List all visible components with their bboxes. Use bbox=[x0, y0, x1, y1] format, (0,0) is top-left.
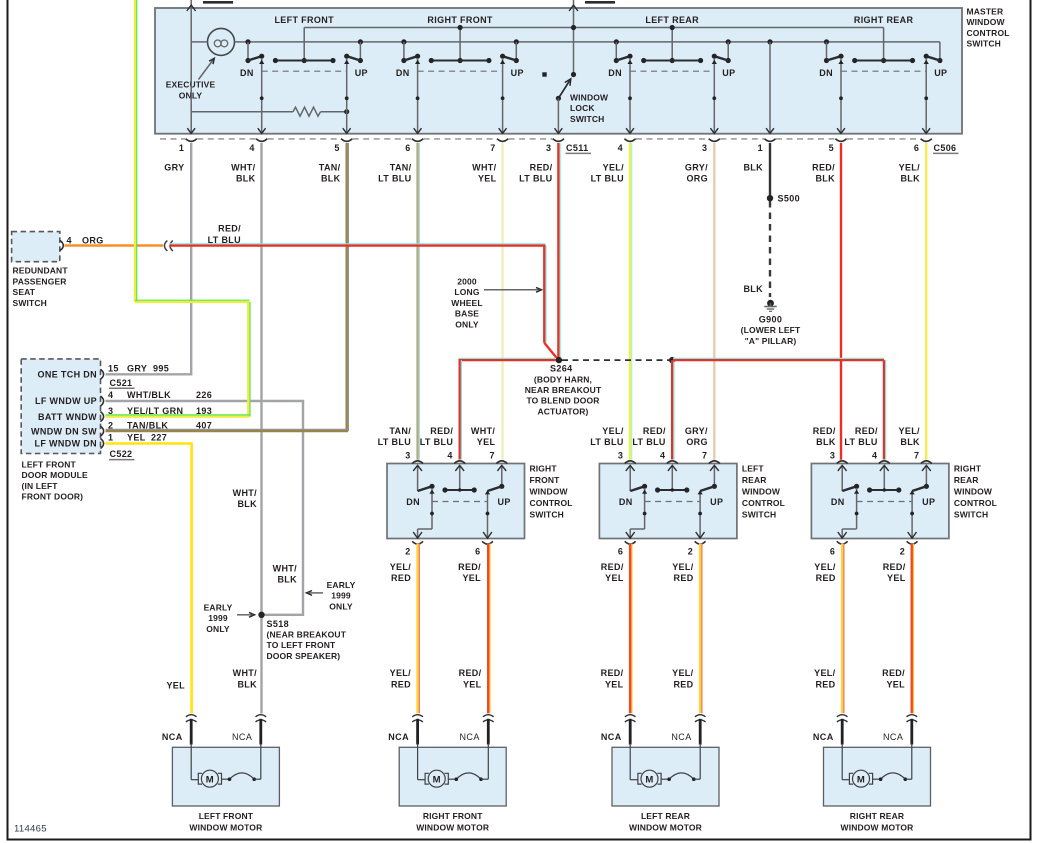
svg-text:RIGHT: RIGHT bbox=[954, 463, 982, 473]
wire YEL/RED left rear switch pin 2 to motor bbox=[699, 544, 702, 714]
svg-text:"A" PILLAR): "A" PILLAR) bbox=[745, 336, 797, 346]
svg-text:WINDOW: WINDOW bbox=[742, 486, 781, 496]
svg-text:RIGHT REAR: RIGHT REAR bbox=[850, 811, 904, 821]
svg-text:WINDOW: WINDOW bbox=[530, 486, 569, 496]
svg-text:BATT WNDW: BATT WNDW bbox=[38, 412, 97, 422]
right rear window control switch box bbox=[811, 464, 949, 539]
svg-text:WINDOW MOTOR: WINDOW MOTOR bbox=[416, 822, 489, 832]
svg-text:LT BLU: LT BLU bbox=[378, 437, 411, 447]
svg-text:RED: RED bbox=[673, 679, 693, 689]
master cell right front DN arm wire to pin bbox=[417, 58, 419, 133]
svg-text:BLK: BLK bbox=[815, 174, 835, 184]
svg-text:WINDOW: WINDOW bbox=[954, 486, 993, 496]
svg-text:RED/: RED/ bbox=[430, 426, 453, 436]
svg-text:RED/: RED/ bbox=[530, 162, 553, 172]
svg-text:SWITCH: SWITCH bbox=[967, 39, 1001, 49]
svg-text:7: 7 bbox=[490, 143, 495, 153]
wire YEL/LT GRN module pin 3 from top bbox=[134, 0, 136, 302]
svg-text:NCA: NCA bbox=[162, 732, 183, 742]
redundant passenger seat switch box bbox=[12, 232, 60, 262]
right front window control switch box bbox=[387, 464, 525, 539]
svg-text:BLK: BLK bbox=[236, 174, 256, 184]
svg-text:NCA: NCA bbox=[883, 732, 903, 742]
svg-text:RED/: RED/ bbox=[459, 668, 482, 678]
svg-text:6: 6 bbox=[475, 546, 480, 556]
wire YEL/RED right front switch pin 2 to motor bbox=[416, 544, 419, 714]
svg-text:SWITCH: SWITCH bbox=[530, 509, 564, 519]
right rear window control switch UP blade bbox=[912, 486, 926, 491]
svg-text:LEFT FRONT: LEFT FRONT bbox=[22, 459, 77, 469]
svg-text:BLK: BLK bbox=[816, 437, 836, 447]
inline connector on ORG/RED wire bbox=[164, 241, 167, 251]
svg-text:YEL/: YEL/ bbox=[898, 426, 920, 436]
right front|window motor brush arc bbox=[448, 778, 456, 780]
master cell left rear DN blade bbox=[616, 56, 630, 60]
wire TAN/LT BLU from master pin 6 bbox=[416, 143, 418, 460]
svg-text:DOOR MODULE: DOOR MODULE bbox=[22, 470, 89, 480]
left rear|window motor motor M1 symbol bbox=[629, 744, 631, 780]
svg-text:7: 7 bbox=[489, 450, 494, 460]
master cell left front UP arm wire to pin bbox=[346, 58, 348, 133]
svg-text:WINDOW MOTOR: WINDOW MOTOR bbox=[841, 822, 914, 832]
left rear window control switch DN blade bbox=[630, 486, 644, 491]
svg-text:LEFT REAR: LEFT REAR bbox=[641, 811, 690, 821]
splice S264 bbox=[556, 357, 562, 363]
illumination lamp (executive only) bbox=[208, 28, 235, 55]
wire WHT/BLK module pin 4 bbox=[106, 400, 305, 402]
left front|window motor motor M1 symbol bbox=[190, 744, 192, 780]
master cell left rear UP bus tap bbox=[726, 39, 731, 44]
right front|window motor lead wires bbox=[416, 719, 419, 745]
svg-text:YEL/: YEL/ bbox=[390, 562, 412, 572]
svg-text:FRONT: FRONT bbox=[530, 475, 561, 485]
right front window control switch pin 7 line bbox=[501, 465, 503, 486]
right front window control switch contact bar bbox=[445, 489, 474, 491]
left rear|window motor brush arc bbox=[661, 778, 669, 780]
master cell left rear UP blade bbox=[714, 56, 728, 60]
bus line B (main supply inside master) bbox=[191, 41, 207, 43]
svg-text:226: 226 bbox=[196, 390, 212, 400]
left rear window control switch UP arm bbox=[699, 491, 701, 538]
master connector bump pin 7 at x=502.6 bbox=[497, 139, 508, 142]
svg-text:114465: 114465 bbox=[14, 824, 47, 835]
svg-text:1: 1 bbox=[108, 433, 113, 443]
svg-text:UP: UP bbox=[511, 68, 524, 78]
svg-text:4: 4 bbox=[660, 450, 665, 460]
svg-text:C521: C521 bbox=[110, 378, 133, 388]
module pin 15 ONE TCH DN bbox=[101, 369, 104, 379]
svg-text:NEAR BREAKOUT: NEAR BREAKOUT bbox=[525, 385, 602, 395]
svg-text:LT BLU: LT BLU bbox=[591, 174, 624, 184]
wire RED/LT BLU horizontal from connector bbox=[170, 244, 546, 246]
master cell left front DN arm wire to pin bbox=[261, 58, 263, 133]
svg-text:TAN/: TAN/ bbox=[389, 426, 411, 436]
master cell right front contact bar bbox=[431, 60, 489, 62]
right rear|window motor motor M1 symbol bbox=[841, 744, 843, 780]
master cell right front DN blade bbox=[404, 56, 418, 60]
arrow 2000-LWB to wire bbox=[484, 289, 539, 291]
svg-text:DN: DN bbox=[396, 68, 410, 78]
wire WHT/BLK from master pin 4 bbox=[260, 143, 262, 714]
svg-text:YEL/: YEL/ bbox=[603, 162, 625, 172]
svg-text:ACTUATOR): ACTUATOR) bbox=[537, 406, 588, 416]
svg-text:3: 3 bbox=[546, 143, 551, 153]
bus line A (window feed inside master) bbox=[304, 27, 883, 29]
right rear window control switch pin bumps top bbox=[837, 461, 848, 464]
svg-text:RED/: RED/ bbox=[812, 162, 835, 172]
svg-text:YEL: YEL bbox=[886, 679, 905, 689]
svg-text:LT BLU: LT BLU bbox=[844, 437, 877, 447]
master cell right rear contact bar bbox=[855, 60, 913, 62]
left front|window motor inline connector right bbox=[256, 715, 267, 717]
master cell left rear mechanical link bbox=[630, 70, 714, 72]
svg-text:CONTROL: CONTROL bbox=[742, 498, 785, 508]
svg-text:RIGHT REAR: RIGHT REAR bbox=[854, 15, 914, 25]
right front|window motor inline connector right bbox=[483, 715, 494, 717]
left rear|window motor lead wires bbox=[629, 719, 632, 745]
svg-text:NCA: NCA bbox=[232, 732, 252, 742]
master connector bump pin 1 at x=770.0 bbox=[764, 139, 775, 142]
wire RED/YEL right rear switch pin 2 to motor bbox=[910, 544, 913, 714]
svg-text:LT BLU: LT BLU bbox=[378, 174, 411, 184]
svg-text:2: 2 bbox=[405, 546, 410, 556]
right rear|window motor inline connector left bbox=[837, 715, 848, 717]
svg-text:CONTROL: CONTROL bbox=[967, 28, 1010, 38]
svg-text:YEL/: YEL/ bbox=[602, 426, 624, 436]
svg-text:RED: RED bbox=[816, 573, 836, 583]
svg-text:LT BLU: LT BLU bbox=[632, 437, 665, 447]
lamp return line with resistor bbox=[190, 42, 192, 133]
svg-text:RIGHT FRONT: RIGHT FRONT bbox=[427, 15, 492, 25]
right rear window control switch pin bumps bottom bbox=[837, 541, 848, 544]
svg-text:CONTROL: CONTROL bbox=[530, 498, 573, 508]
wire feed to window lock switch (right pigtail) bbox=[573, 0, 575, 75]
right rear|window motor box bbox=[824, 747, 931, 806]
right rear window control switch pin 4 feed line bbox=[883, 465, 885, 490]
svg-text:WHT/: WHT/ bbox=[233, 668, 258, 678]
svg-text:LEFT: LEFT bbox=[742, 463, 765, 473]
wire BLK dashed to ground bbox=[769, 201, 771, 297]
wire YEL/LT BLU from master pin 4 C506 bbox=[629, 143, 631, 460]
window lock switch wire to pin 3 bbox=[557, 98, 559, 133]
splice S518 bbox=[258, 612, 264, 618]
svg-text:CONTROL: CONTROL bbox=[954, 498, 997, 508]
module pin 4 LF WNDW UP bbox=[101, 396, 104, 406]
window lock switch blade bbox=[571, 72, 576, 77]
svg-text:RED: RED bbox=[391, 573, 411, 583]
svg-text:YEL: YEL bbox=[887, 573, 906, 583]
svg-text:4: 4 bbox=[67, 236, 72, 246]
svg-text:UP: UP bbox=[934, 68, 947, 78]
right front window control switch pin 4 feed line bbox=[459, 465, 461, 490]
wire BLK from master pin 1 C506 bbox=[769, 143, 771, 197]
module pin 1 LF WNDW DN bbox=[101, 439, 104, 449]
right rear window control switch mechanical link bbox=[857, 501, 913, 503]
wire WHT/BLK branch into S518 bbox=[262, 614, 304, 616]
module pin 3 BATT WNDW bbox=[101, 412, 104, 422]
svg-text:RED/: RED/ bbox=[218, 224, 241, 234]
svg-text:EARLY: EARLY bbox=[327, 580, 356, 590]
svg-text:6: 6 bbox=[914, 143, 919, 153]
svg-text:BLK: BLK bbox=[743, 284, 763, 294]
left front|window motor lead wires bbox=[190, 719, 193, 745]
svg-text:WHT/: WHT/ bbox=[233, 488, 258, 498]
master cell left front UP bus tap bbox=[358, 39, 363, 44]
master cell right front UP bus tap bbox=[514, 39, 519, 44]
svg-text:4: 4 bbox=[249, 143, 254, 153]
master cell left rear center feed to line A bbox=[671, 28, 673, 61]
svg-text:DN: DN bbox=[608, 68, 622, 78]
right front window control switch UP arm bbox=[487, 491, 489, 538]
svg-text:6: 6 bbox=[830, 546, 835, 556]
svg-text:(LOWER LEFT: (LOWER LEFT bbox=[741, 325, 801, 335]
right front|window motor box bbox=[399, 747, 506, 806]
svg-text:UP: UP bbox=[355, 68, 368, 78]
right front window control switch DN blade bbox=[418, 486, 432, 491]
wire RED/YEL left rear switch pin 6 to motor bbox=[629, 544, 632, 714]
svg-text:995: 995 bbox=[153, 364, 169, 374]
master cell left front DN bus tap bbox=[245, 39, 250, 44]
svg-text:DN: DN bbox=[819, 68, 833, 78]
svg-text:ORG: ORG bbox=[686, 174, 708, 184]
svg-text:GRY/: GRY/ bbox=[685, 162, 708, 172]
master cell right rear DN blade bbox=[827, 56, 842, 60]
right front|window motor inline connector left bbox=[412, 715, 423, 717]
master cell right rear mechanical link bbox=[841, 70, 926, 72]
wire YEL/RED right rear switch pin 6 to motor bbox=[841, 544, 844, 714]
right front window control switch UP blade bbox=[488, 486, 502, 491]
master cell right rear DN bus tap bbox=[824, 39, 829, 44]
svg-text:YEL: YEL bbox=[605, 573, 624, 583]
wire TAN/BLK from master pin 5 bbox=[346, 143, 348, 431]
svg-text:NCA: NCA bbox=[388, 732, 409, 742]
svg-text:NCA: NCA bbox=[459, 732, 479, 742]
svg-text:4: 4 bbox=[447, 450, 452, 460]
svg-text:LEFT FRONT: LEFT FRONT bbox=[199, 811, 254, 821]
svg-text:UP: UP bbox=[922, 497, 935, 507]
left rear window control switch UP blade bbox=[700, 486, 714, 491]
master connector bump pin 1 at x=191.2 bbox=[186, 139, 197, 142]
master cell right front center feed to line A bbox=[459, 28, 461, 61]
svg-text:LF WNDW UP: LF WNDW UP bbox=[35, 396, 97, 406]
svg-text:M: M bbox=[433, 774, 441, 785]
right front window control switch pin 3 line bbox=[417, 465, 419, 491]
left front|window motor box bbox=[172, 747, 279, 806]
left rear|window motor box bbox=[612, 747, 719, 806]
svg-text:TAN/: TAN/ bbox=[390, 162, 412, 172]
svg-text:SEAT: SEAT bbox=[13, 287, 36, 297]
master cell right front DN bus tap bbox=[401, 39, 406, 44]
svg-text:2: 2 bbox=[900, 546, 905, 556]
svg-text:M: M bbox=[206, 774, 214, 785]
svg-text:REDUNDANT: REDUNDANT bbox=[13, 266, 69, 276]
master cell left rear DN arm wire to pin bbox=[629, 58, 631, 133]
svg-text:NCA: NCA bbox=[671, 732, 691, 742]
window lock switch contact point bbox=[542, 72, 546, 76]
master window control switch U-master box bbox=[155, 8, 962, 134]
svg-text:WINDOW: WINDOW bbox=[570, 93, 609, 103]
wire TAN/BLK module pin 2 to master pin 5 bbox=[106, 430, 348, 432]
svg-text:4: 4 bbox=[108, 390, 113, 400]
svg-text:ONE TCH DN: ONE TCH DN bbox=[38, 370, 98, 380]
svg-text:WINDOW MOTOR: WINDOW MOTOR bbox=[629, 822, 702, 832]
master connector bump pin 6 at x=417.6 bbox=[412, 139, 423, 142]
svg-text:WHEEL: WHEEL bbox=[451, 298, 482, 308]
svg-text:UP: UP bbox=[498, 497, 511, 507]
svg-text:5: 5 bbox=[829, 143, 834, 153]
svg-text:1999: 1999 bbox=[331, 591, 351, 601]
svg-text:SWITCH: SWITCH bbox=[742, 509, 776, 519]
svg-text:15: 15 bbox=[108, 364, 119, 374]
svg-text:LEFT FRONT: LEFT FRONT bbox=[274, 15, 334, 25]
resistor R-lamp bbox=[293, 107, 321, 116]
svg-text:PASSENGER: PASSENGER bbox=[13, 276, 67, 286]
svg-text:LOCK: LOCK bbox=[570, 103, 595, 113]
arrow early-1999 to S518 bbox=[237, 614, 252, 616]
splice node right of S264 bbox=[669, 357, 675, 363]
svg-text:3: 3 bbox=[702, 143, 707, 153]
svg-text:DN: DN bbox=[240, 68, 254, 78]
wire RED/LT BLU from master pin 3 bbox=[557, 143, 559, 358]
svg-text:BLK: BLK bbox=[277, 575, 297, 585]
svg-text:6: 6 bbox=[618, 546, 623, 556]
svg-text:YEL/: YEL/ bbox=[814, 668, 836, 678]
svg-text:LONG: LONG bbox=[454, 287, 479, 297]
svg-text:WHT/BLK: WHT/BLK bbox=[127, 390, 171, 400]
svg-text:RED: RED bbox=[815, 679, 835, 689]
svg-text:LF WNDW DN: LF WNDW DN bbox=[35, 439, 97, 449]
svg-text:YEL: YEL bbox=[462, 573, 481, 583]
svg-text:RIGHT: RIGHT bbox=[530, 463, 558, 473]
master cell right rear UP blade bbox=[926, 56, 940, 60]
svg-text:BLK: BLK bbox=[900, 174, 920, 184]
svg-text:RED/: RED/ bbox=[601, 562, 624, 572]
arrow early-1999 to branch wire bbox=[309, 592, 323, 594]
wire RED/LT BLU to right rear switch pin 4 bbox=[673, 359, 884, 361]
svg-text:TAN/: TAN/ bbox=[319, 162, 341, 172]
master cell right rear UP arm wire to pin bbox=[925, 58, 927, 133]
svg-text:BLK: BLK bbox=[237, 679, 257, 689]
module pin 2 WNDW DN SW bbox=[101, 426, 104, 436]
svg-text:WNDW DN SW: WNDW DN SW bbox=[31, 426, 97, 436]
right front window control switch DN arm bbox=[431, 488, 433, 529]
passenger seat switch pin 4 bump bbox=[60, 241, 63, 251]
master cell left rear UP arm wire to pin bbox=[713, 58, 715, 133]
right rear window control switch pin 3 line bbox=[841, 465, 843, 491]
svg-text:BLK: BLK bbox=[900, 437, 920, 447]
wire GRY/ORG from master pin 3 C506 bbox=[713, 143, 715, 460]
svg-text:LT BLU: LT BLU bbox=[420, 437, 453, 447]
master cell right front UP arm wire to pin bbox=[502, 58, 504, 133]
svg-text:2000: 2000 bbox=[457, 277, 477, 287]
svg-text:1999: 1999 bbox=[208, 613, 228, 623]
wire YEL module pin 1 bbox=[106, 442, 193, 445]
svg-text:RED: RED bbox=[391, 679, 411, 689]
wire YEL/BLK from master pin 6 C506 bbox=[925, 143, 927, 460]
left rear window control switch box bbox=[599, 464, 737, 539]
svg-text:2: 2 bbox=[688, 546, 693, 556]
right rear window control switch pin 7 line bbox=[925, 465, 927, 486]
svg-text:1: 1 bbox=[758, 143, 763, 153]
master connector bump pin 6 at x=926.2 bbox=[921, 139, 932, 142]
master connector bump pin 3 at x=558.4 bbox=[553, 139, 564, 142]
left rear window control switch pin bumps top bbox=[625, 461, 636, 464]
svg-text:UP: UP bbox=[722, 68, 735, 78]
svg-text:WINDOW MOTOR: WINDOW MOTOR bbox=[189, 822, 262, 832]
svg-text:M: M bbox=[645, 774, 653, 785]
svg-text:LEFT REAR: LEFT REAR bbox=[645, 15, 699, 25]
master cell left front center feed to line A bbox=[303, 28, 305, 61]
left rear window control switch pin 3 line bbox=[629, 465, 631, 491]
svg-text:DN: DN bbox=[619, 497, 633, 507]
svg-text:BASE: BASE bbox=[455, 309, 479, 319]
svg-text:FRONT DOOR): FRONT DOOR) bbox=[22, 492, 84, 502]
wire RED/LT BLU S264 to right front switch pin 4 bbox=[459, 359, 557, 361]
svg-text:RED/: RED/ bbox=[601, 668, 624, 678]
wire GRY module pin 15 to master bbox=[106, 373, 193, 375]
svg-text:ONLY: ONLY bbox=[455, 319, 479, 329]
svg-text:DOOR SPEAKER): DOOR SPEAKER) bbox=[267, 651, 341, 661]
left rear window control switch DN arm bbox=[644, 488, 646, 529]
svg-text:SWITCH: SWITCH bbox=[570, 114, 604, 124]
svg-text:RED/: RED/ bbox=[643, 426, 666, 436]
svg-text:LT BLU: LT BLU bbox=[590, 437, 623, 447]
master connector bump pin 4 at x=630.0 bbox=[624, 139, 635, 142]
svg-text:WHT/: WHT/ bbox=[471, 426, 496, 436]
wire GRY from master pin 1 bbox=[190, 143, 192, 374]
svg-text:M: M bbox=[857, 774, 865, 785]
svg-text:UP: UP bbox=[710, 497, 723, 507]
left rear window control switch contact bar bbox=[658, 489, 687, 491]
svg-text:YEL/: YEL/ bbox=[390, 668, 412, 678]
master connector bump pin 5 at x=346.7 bbox=[341, 139, 352, 142]
svg-text:YEL/: YEL/ bbox=[814, 562, 836, 572]
svg-text:TO LEFT FRONT: TO LEFT FRONT bbox=[267, 640, 336, 650]
right front window control switch pin bumps top bbox=[412, 461, 423, 464]
master cell right front UP blade bbox=[503, 56, 517, 60]
svg-text:YEL/: YEL/ bbox=[672, 668, 694, 678]
svg-text:1: 1 bbox=[179, 143, 184, 153]
right front window control switch mechanical link bbox=[432, 501, 488, 503]
master cell left front contact bar bbox=[275, 60, 333, 62]
arrow executive-only to lamp bbox=[199, 60, 214, 80]
svg-text:S500: S500 bbox=[778, 194, 800, 204]
right rear|window motor brush arc bbox=[873, 778, 881, 780]
ground G900 symbol bbox=[767, 300, 774, 307]
svg-text:4: 4 bbox=[618, 143, 623, 153]
left front|window motor brush arc bbox=[222, 778, 230, 780]
svg-text:BLK: BLK bbox=[743, 162, 763, 172]
svg-text:LT BLU: LT BLU bbox=[519, 174, 552, 184]
svg-text:REAR: REAR bbox=[954, 475, 979, 485]
right rear|window motor lead wires bbox=[841, 719, 844, 745]
master cell right rear DN arm wire to pin bbox=[840, 58, 842, 133]
master ground feed wire to pin 1 BLK bbox=[767, 39, 772, 44]
svg-text:G900: G900 bbox=[759, 315, 782, 325]
right rear window control switch DN blade bbox=[842, 486, 856, 491]
svg-text:DN: DN bbox=[831, 497, 845, 507]
cut label underline left bbox=[203, 1, 233, 4]
master cell left front mechanical link bbox=[262, 70, 347, 72]
svg-text:RED/: RED/ bbox=[458, 562, 481, 572]
left rear|window motor inline connector right bbox=[695, 715, 706, 717]
svg-text:MASTER: MASTER bbox=[967, 7, 1004, 17]
svg-text:DN: DN bbox=[406, 497, 420, 507]
dashed link S264 to splice node bbox=[562, 359, 669, 361]
svg-text:(IN LEFT: (IN LEFT bbox=[22, 481, 59, 491]
svg-text:RED/: RED/ bbox=[855, 426, 878, 436]
svg-text:(NEAR BREAKOUT: (NEAR BREAKOUT bbox=[267, 630, 347, 640]
